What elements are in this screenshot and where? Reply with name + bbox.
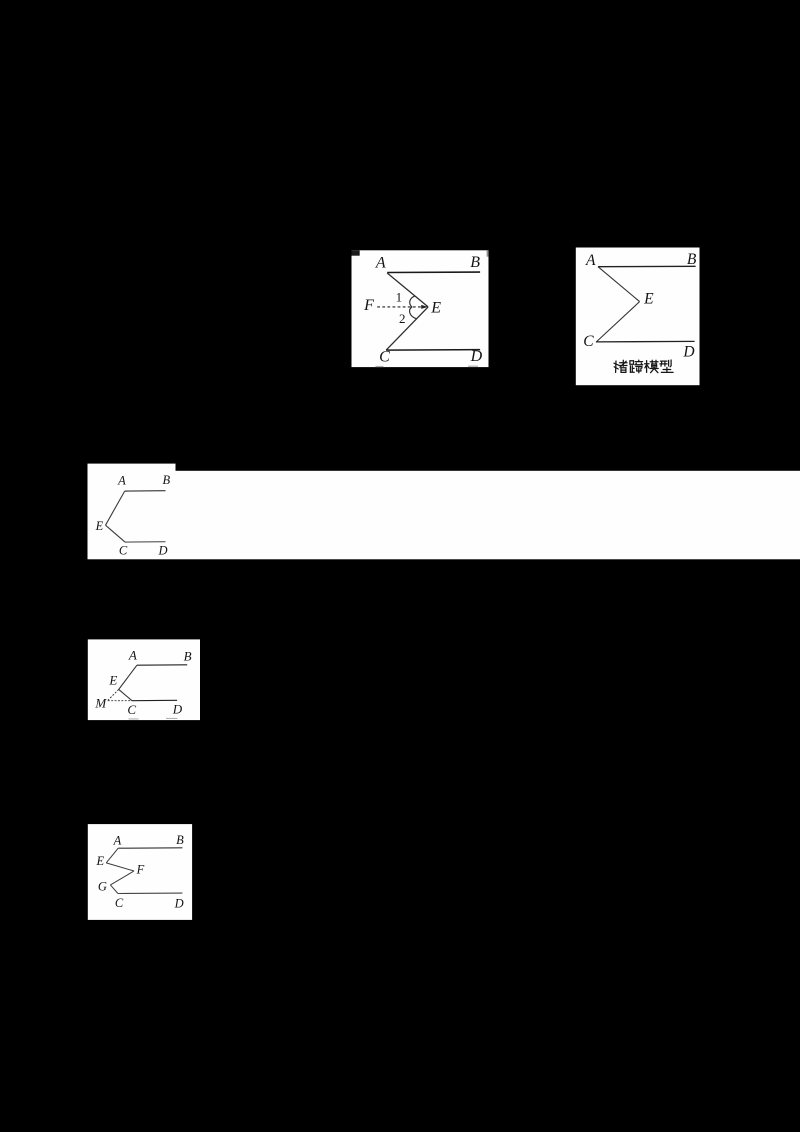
segment GC (figure 5) (110, 885, 118, 894)
svg-text:A: A (585, 252, 596, 269)
segment AE (figure 2) (598, 267, 640, 302)
char 猪 (614, 360, 627, 372)
svg-text:E: E (108, 673, 117, 688)
scan blemish gray tick top-right of figure 1 (487, 250, 489, 256)
scan blemish bottom ticks of figure 1 (376, 366, 384, 367)
svg-text:1: 1 (396, 290, 403, 305)
svg-text:B: B (162, 473, 170, 487)
figure 3 white strip (full width) (88, 471, 800, 560)
svg-text:E: E (95, 854, 104, 868)
line AB (figure 1) (387, 271, 480, 273)
figure 1 white box (352, 250, 489, 367)
line CD (figure 4) (132, 699, 177, 701)
dashed segment EM (figure 4) (108, 689, 119, 700)
svg-text:E: E (430, 299, 441, 316)
segment EF (figure 5) (106, 863, 134, 871)
svg-text:A: A (113, 834, 122, 848)
segment AE (figure 5) (106, 848, 118, 863)
svg-text:A: A (375, 255, 386, 272)
angle arc 2 at E (figure 1) (410, 307, 417, 319)
dashed segment MC (figure 4) (108, 700, 132, 702)
svg-text:D: D (172, 702, 183, 717)
scan blemish bottom ticks of figure 4 (129, 718, 139, 719)
svg-text:B: B (184, 648, 192, 663)
caption 猪蹄模型 (pig-hoof model) drawn as strokes (figure 2) (614, 360, 673, 373)
svg-text:F: F (136, 863, 145, 877)
figure 2 white box (576, 248, 700, 386)
svg-text:E: E (95, 519, 104, 533)
svg-text:F: F (363, 297, 374, 314)
svg-text:A: A (128, 648, 137, 663)
svg-text:C: C (127, 702, 136, 717)
segment AE (figure 3) (106, 491, 125, 525)
figure 4 white box (88, 639, 200, 720)
svg-text:B: B (176, 833, 184, 847)
segment EC (figure 2) (597, 302, 640, 342)
line CD (figure 3) (125, 541, 166, 543)
line CD (figure 2) (596, 340, 695, 343)
line AB (figure 2) (598, 265, 696, 267)
line AB (figure 4) (137, 664, 187, 666)
figure 3 white box taller left part (88, 464, 176, 474)
arrowhead at E on ray FE (figure 1) (421, 305, 428, 309)
svg-text:A: A (117, 474, 126, 488)
dashed ray FE (figure 1) (377, 306, 421, 308)
svg-text:D: D (682, 344, 694, 361)
svg-text:B: B (687, 251, 697, 268)
angle arc 1 at E (figure 1) (410, 296, 415, 307)
segment AE (figure 4) (119, 665, 137, 689)
svg-text:M: M (94, 696, 107, 711)
svg-text:E: E (643, 290, 654, 307)
svg-text:G: G (98, 880, 107, 894)
segment EC (figure 3) (106, 525, 126, 542)
svg-text:D: D (157, 543, 167, 557)
segment EC solid (figure 4) (119, 689, 132, 700)
svg-text:D: D (470, 348, 483, 365)
segment AE (figure 1) (387, 273, 428, 307)
char 型 (660, 360, 673, 372)
svg-text:B: B (470, 254, 480, 271)
char 蹄 (630, 360, 643, 373)
svg-text:2: 2 (399, 311, 406, 326)
svg-text:D: D (174, 897, 184, 911)
line AB (figure 3) (125, 490, 166, 492)
svg-text:C: C (119, 543, 128, 557)
segment FG (figure 5) (110, 871, 134, 885)
char 模 (645, 360, 659, 373)
segment EC (figure 1) (386, 307, 428, 350)
line CD (figure 5) (118, 892, 182, 894)
svg-text:C: C (583, 333, 594, 350)
svg-text:C: C (379, 349, 390, 366)
svg-text:C: C (115, 896, 124, 910)
figure 5 white box (88, 824, 192, 920)
line AB (figure 5) (118, 847, 182, 849)
line CD (figure 1) (386, 349, 480, 352)
scan blemish dark square top-left of figure 1 (352, 250, 360, 255)
